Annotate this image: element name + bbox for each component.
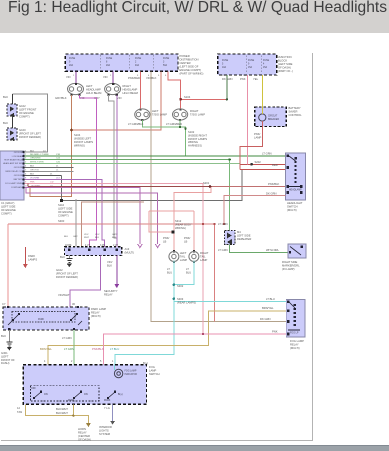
svg-text:FUSE: FUSE [263, 60, 270, 62]
svg-text:FOG LAMP: FOG LAMP [125, 370, 137, 373]
svg-text:BLK: BLK [30, 150, 35, 152]
svg-text:HARNESS): HARNESS) [188, 144, 202, 148]
svg-text:20A: 20A [69, 64, 74, 67]
svg-text:(IN LAMP): (IN LAMP) [282, 267, 295, 271]
svg-text:SAVER: SAVER [289, 110, 298, 114]
svg-text:RELAY: RELAY [290, 343, 299, 347]
svg-text:(LEFT FRONT: (LEFT FRONT [19, 108, 37, 112]
svg-text:(INSIDE RIGHT: (INSIDE RIGHT [188, 133, 207, 137]
svg-text:LAMP: LAMP [200, 258, 208, 262]
svg-text:5: 5 [158, 75, 160, 77]
svg-text:PNK/BLK: PNK/BLK [268, 182, 280, 186]
svg-text:FRONT LAMPS: FRONT LAMPS [188, 137, 207, 141]
svg-text:S110: S110 [58, 203, 65, 207]
svg-text:TAN: TAN [17, 410, 22, 414]
svg-text:OF DASH): OF DASH) [78, 438, 91, 442]
svg-text:RIGHT SIDE: RIGHT SIDE [282, 260, 298, 264]
svg-text:FRONT LAMPS: FRONT LAMPS [74, 140, 93, 144]
svg-text:PNK/: PNK/ [184, 236, 191, 240]
svg-text:DK GRN: DK GRN [222, 77, 233, 81]
svg-text:GROUND: GROUND [14, 175, 24, 177]
svg-text:OF ENGINE: OF ENGINE [1, 208, 16, 212]
svg-text:30: 30 [72, 302, 75, 306]
svg-text:LT BLU: LT BLU [110, 347, 119, 351]
svg-text:BLK: BLK [1, 334, 6, 338]
svg-text:S104: S104 [184, 95, 191, 99]
svg-text:(PART OF WIRING): (PART OF WIRING) [180, 72, 204, 76]
svg-text:PNK: PNK [30, 182, 35, 184]
svg-text:MARKER/DRL: MARKER/DRL [282, 264, 300, 268]
svg-text:GROUND: GROUND [14, 152, 24, 154]
svg-text:DASH): DASH) [1, 361, 9, 365]
svg-text:BRN/YEL: BRN/YEL [262, 306, 274, 310]
svg-text:SWITCH: SWITCH [287, 205, 298, 209]
svg-text:COMPLAINT: COMPLAINT [11, 186, 24, 189]
svg-text:2 VT: 2 VT [113, 244, 119, 247]
svg-text:DK GRN - LT GRN: DK GRN - LT GRN [30, 154, 49, 156]
svg-text:3 PK: 3 PK [100, 244, 106, 247]
svg-text:S312: S312 [175, 219, 182, 223]
svg-text:GRY/VIO: GRY/VIO [30, 170, 39, 172]
svg-text:BLK/WHT: BLK/WHT [56, 411, 68, 415]
svg-text:WHT/LT GRN: WHT/LT GRN [30, 162, 44, 164]
svg-text:RED: RED [272, 163, 278, 167]
svg-text:RIGHT: RIGHT [190, 109, 199, 113]
svg-text:OF ENGINE: OF ENGINE [58, 210, 73, 214]
svg-text:20A: 20A [106, 64, 111, 67]
svg-text:FOG LAMP SW/B+: FOG LAMP SW/B+ [5, 182, 24, 185]
svg-text:LAMP: LAMP [180, 258, 188, 262]
svg-text:2: 2 [110, 75, 112, 77]
svg-text:PARK: PARK [68, 399, 75, 402]
svg-text:7 LG: 7 LG [104, 406, 110, 410]
svg-text:B(+): B(+) [143, 361, 148, 365]
svg-text:GROUND: GROUND [14, 167, 24, 169]
svg-text:(LEFT SIDE OF: (LEFT SIDE OF [180, 65, 199, 69]
svg-text:4 VT: 4 VT [85, 244, 91, 247]
svg-text:18 BK: 18 BK [65, 244, 72, 247]
svg-text:BRN/YEL: BRN/YEL [40, 347, 52, 351]
svg-text:VIO/: VIO/ [84, 234, 89, 236]
svg-text:OFF: OFF [31, 387, 36, 390]
svg-text:PARK: PARK [38, 318, 45, 321]
svg-text:4: 4 [44, 360, 46, 363]
svg-text:LEFT: LEFT [86, 84, 93, 88]
svg-text:BLU: BLU [186, 270, 191, 274]
svg-text:G102: G102 [56, 268, 63, 272]
svg-text:HEADLIGHT: HEADLIGHT [287, 201, 303, 205]
svg-text:VIO: VIO [117, 96, 122, 100]
svg-text:LB: LB [163, 239, 166, 243]
svg-text:WIRING): WIRING) [175, 226, 186, 230]
svg-text:GRY: GRY [73, 236, 78, 238]
svg-text:S201: S201 [203, 181, 210, 185]
svg-text:HI/LO BEAM: HI/LO BEAM [123, 91, 139, 95]
svg-text:40A: 40A [135, 64, 140, 67]
svg-text:RIGHT: RIGHT [200, 251, 209, 255]
svg-text:12: 12 [17, 406, 20, 410]
svg-text:ON: ON [44, 393, 48, 396]
svg-text:LT GRN: LT GRN [218, 222, 228, 226]
svg-text:VIO/WHT: VIO/WHT [58, 293, 70, 297]
svg-text:T/SIG LAMP: T/SIG LAMP [152, 113, 167, 117]
svg-text:(MULTI): (MULTI) [125, 251, 135, 255]
svg-text:PNK: PNK [272, 330, 278, 334]
svg-text:(CENTER: (CENTER [78, 434, 90, 438]
svg-text:ENGINE COMPT): ENGINE COMPT) [180, 68, 202, 72]
svg-text:(FRONT OF LEFT: (FRONT OF LEFT [19, 132, 41, 136]
svg-text:RELAY: RELAY [91, 311, 100, 315]
svg-text:LT: LT [167, 267, 170, 271]
svg-text:LT GRN: LT GRN [218, 248, 228, 252]
svg-text:HEADLAMP SW SEN: HEADLAMP SW SEN [3, 162, 24, 165]
svg-text:BLOCK: BLOCK [278, 59, 287, 63]
svg-text:LB: LB [184, 239, 187, 243]
svg-text:VIO/GRN: VIO/GRN [30, 178, 40, 180]
svg-text:PARK: PARK [28, 254, 35, 258]
svg-text:S202: S202 [255, 160, 262, 164]
svg-text:G102: G102 [19, 104, 26, 108]
svg-text:BLK/WHT: BLK/WHT [56, 407, 68, 411]
svg-text:S300: S300 [58, 219, 65, 223]
svg-text:S302: S302 [177, 284, 184, 288]
svg-text:WITH DRL: WITH DRL [266, 248, 279, 252]
svg-text:WIRING: WIRING [188, 140, 198, 144]
svg-text:PARK LAMP: PARK LAMP [91, 307, 106, 311]
svg-text:HEADLAMP: HEADLAMP [289, 188, 302, 191]
svg-text:INDICATOR: INDICATOR [125, 373, 138, 376]
svg-text:ON: ON [84, 393, 88, 396]
svg-text:GRY/: GRY/ [112, 234, 118, 236]
svg-text:LT GRN/RED: LT GRN/RED [166, 122, 182, 126]
svg-text:FRONT FENDER): FRONT FENDER) [56, 275, 78, 279]
svg-text:LT BLU: LT BLU [266, 297, 275, 301]
svg-text:M4: M4 [237, 230, 241, 234]
svg-text:(INSIDE LEFT: (INSIDE LEFT [74, 137, 92, 141]
svg-text:CIRCUIT: CIRCUIT [268, 116, 278, 118]
svg-text:FUSE: FUSE [163, 58, 170, 60]
svg-text:COMPT): COMPT) [1, 212, 12, 216]
svg-text:PNK: PNK [240, 77, 246, 81]
svg-text:S104: S104 [74, 133, 81, 137]
svg-text:TAIL: TAIL [180, 254, 186, 258]
svg-text:G301: G301 [1, 351, 8, 355]
svg-text:S303: S303 [177, 297, 184, 301]
svg-text:BATTERY: BATTERY [289, 106, 301, 110]
svg-text:VIO: VIO [103, 75, 108, 79]
svg-text:BLK: BLK [95, 237, 100, 239]
svg-text:A13: A13 [125, 247, 130, 251]
svg-text:RELAY: RELAY [78, 431, 87, 435]
svg-text:LT GRN: LT GRN [64, 347, 74, 351]
svg-text:T/SIG LAMP: T/SIG LAMP [190, 113, 205, 117]
svg-text:(PART OF...): (PART OF...) [278, 69, 293, 73]
svg-text:HI/LO BEAM: HI/LO BEAM [86, 91, 102, 95]
svg-text:DK GRN: DK GRN [260, 317, 271, 321]
svg-text:FUSE: FUSE [106, 58, 113, 60]
svg-text:VIO: VIO [66, 75, 71, 79]
svg-text:BLK: BLK [30, 174, 35, 176]
svg-text:(REAR BODY: (REAR BODY [175, 222, 192, 226]
svg-text:G100: G100 [19, 128, 26, 132]
svg-text:TAIL: TAIL [200, 254, 206, 258]
svg-text:SYSTEM: SYSTEM [99, 432, 111, 436]
svg-text:10A: 10A [222, 66, 227, 69]
svg-text:BLK: BLK [107, 263, 112, 267]
svg-text:FUSE: FUSE [135, 58, 142, 60]
svg-text:BLK: BLK [3, 95, 8, 99]
svg-text:PARK RELAY OUT: PARK RELAY OUT [5, 170, 23, 173]
svg-text:(LEFT SIDE: (LEFT SIDE [58, 207, 73, 211]
svg-text:50A: 50A [163, 64, 168, 67]
svg-text:15A: 15A [263, 66, 268, 69]
svg-text:(MULTI): (MULTI) [91, 314, 101, 318]
svg-text:B(+): B(+) [118, 393, 123, 396]
svg-text:GRY/BLK: GRY/BLK [55, 96, 67, 100]
svg-text:C7: C7 [2, 302, 6, 306]
svg-text:WIRING): WIRING) [74, 144, 85, 148]
svg-text:(FRONT OF LEFT: (FRONT OF LEFT [56, 272, 78, 276]
svg-text:POWER: POWER [180, 54, 190, 58]
svg-text:15A: 15A [248, 66, 253, 69]
svg-text:FRONT OF: FRONT OF [1, 358, 15, 362]
svg-text:FUSE: FUSE [248, 60, 255, 62]
svg-text:OF ENGINE: OF ENGINE [19, 111, 34, 115]
svg-text:FUSE: FUSE [222, 60, 229, 62]
svg-text:1: 1 [73, 75, 75, 77]
svg-text:LT GRN/BLK: LT GRN/BLK [128, 122, 144, 126]
svg-text:(MULTI): (MULTI) [290, 346, 300, 350]
svg-text:(REAR LAMPS): (REAR LAMPS) [177, 301, 196, 305]
svg-text:(LEFT SIDE: (LEFT SIDE [278, 62, 293, 66]
svg-text:BLK: BLK [64, 236, 69, 238]
svg-text:C1 (GRAY): C1 (GRAY) [1, 201, 14, 205]
svg-text:OF DASH): OF DASH) [278, 66, 291, 70]
svg-text:LT GRN: LT GRN [262, 152, 272, 156]
svg-text:BLU: BLU [167, 270, 172, 274]
svg-text:REPEATER: REPEATER [237, 237, 251, 241]
svg-text:PNK/: PNK/ [163, 236, 170, 240]
svg-text:LEFT SIDE: LEFT SIDE [237, 234, 251, 238]
svg-text:HIGH BEAM RELAY: HIGH BEAM RELAY [4, 158, 24, 161]
svg-text:2: 2 [71, 360, 73, 363]
svg-text:S102: S102 [188, 130, 195, 134]
svg-text:SWITCH: SWITCH [149, 372, 160, 376]
svg-text:(LEFT SIDE: (LEFT SIDE [1, 205, 16, 209]
svg-text:ORN/GRN: ORN/GRN [30, 158, 41, 160]
svg-text:WHT: WHT [84, 237, 90, 239]
svg-text:LEFT: LEFT [152, 109, 159, 113]
svg-text:LOW BEAM: LOW BEAM [12, 155, 23, 158]
svg-text:SECURITY: SECURITY [104, 289, 118, 293]
svg-text:LAMP: LAMP [149, 369, 157, 373]
svg-text:BLK: BLK [3, 121, 8, 125]
svg-text:17: 17 [256, 75, 259, 77]
svg-text:PARK: PARK [104, 399, 111, 402]
svg-text:PNK/BLK: PNK/BLK [92, 347, 104, 351]
svg-text:INTERIOR: INTERIOR [99, 425, 112, 429]
svg-text:CONTROL: CONTROL [289, 113, 303, 117]
svg-text:LAMP: LAMP [254, 135, 262, 139]
svg-text:LT: LT [186, 267, 189, 271]
svg-text:DK GRN: DK GRN [266, 192, 277, 196]
svg-text:CENTER: CENTER [180, 61, 191, 65]
svg-text:BLK: BLK [30, 166, 35, 168]
svg-text:DISTRIBUTION: DISTRIBUTION [180, 58, 199, 62]
svg-text:COMPT): COMPT) [19, 115, 30, 119]
svg-text:1: 1 [112, 360, 114, 363]
svg-text:RELAY: RELAY [104, 293, 113, 297]
svg-text:6: 6 [165, 75, 167, 77]
svg-text:BATTERY: BATTERY [14, 178, 24, 181]
svg-text:RIGHT: RIGHT [123, 84, 132, 88]
svg-text:FOG LP: FOG LP [290, 333, 299, 335]
svg-text:(MULTI): (MULTI) [287, 208, 297, 212]
svg-text:FUSE: FUSE [69, 58, 76, 60]
svg-text:YEL: YEL [253, 77, 259, 81]
svg-text:PNK/: PNK/ [254, 132, 261, 136]
svg-text:BLK: BLK [112, 237, 117, 239]
svg-text:HEADLAMP: HEADLAMP [123, 88, 138, 92]
svg-text:VIO/: VIO/ [95, 234, 100, 236]
svg-text:FOG LAMP: FOG LAMP [290, 339, 304, 343]
svg-text:BLK: BLK [60, 255, 65, 259]
svg-text:VIO/: VIO/ [107, 260, 113, 264]
svg-text:HORN: HORN [78, 427, 86, 431]
svg-text:(LEFT: (LEFT [1, 354, 9, 358]
svg-text:LAMPS: LAMPS [28, 257, 37, 261]
svg-text:JUNCTION: JUNCTION [278, 55, 292, 59]
svg-text:FOG: FOG [149, 365, 155, 369]
svg-text:COMPT): COMPT) [58, 214, 69, 218]
svg-text:LEFT: LEFT [180, 251, 187, 255]
svg-text:LIGHTS: LIGHTS [99, 429, 109, 433]
svg-text:LT GRN: LT GRN [62, 336, 72, 340]
svg-text:HEADLAMP: HEADLAMP [86, 88, 101, 92]
svg-text:5: 5 [100, 360, 102, 363]
svg-text:BREAKER: BREAKER [268, 118, 279, 121]
svg-text:FRONT FENDER): FRONT FENDER) [19, 135, 41, 139]
